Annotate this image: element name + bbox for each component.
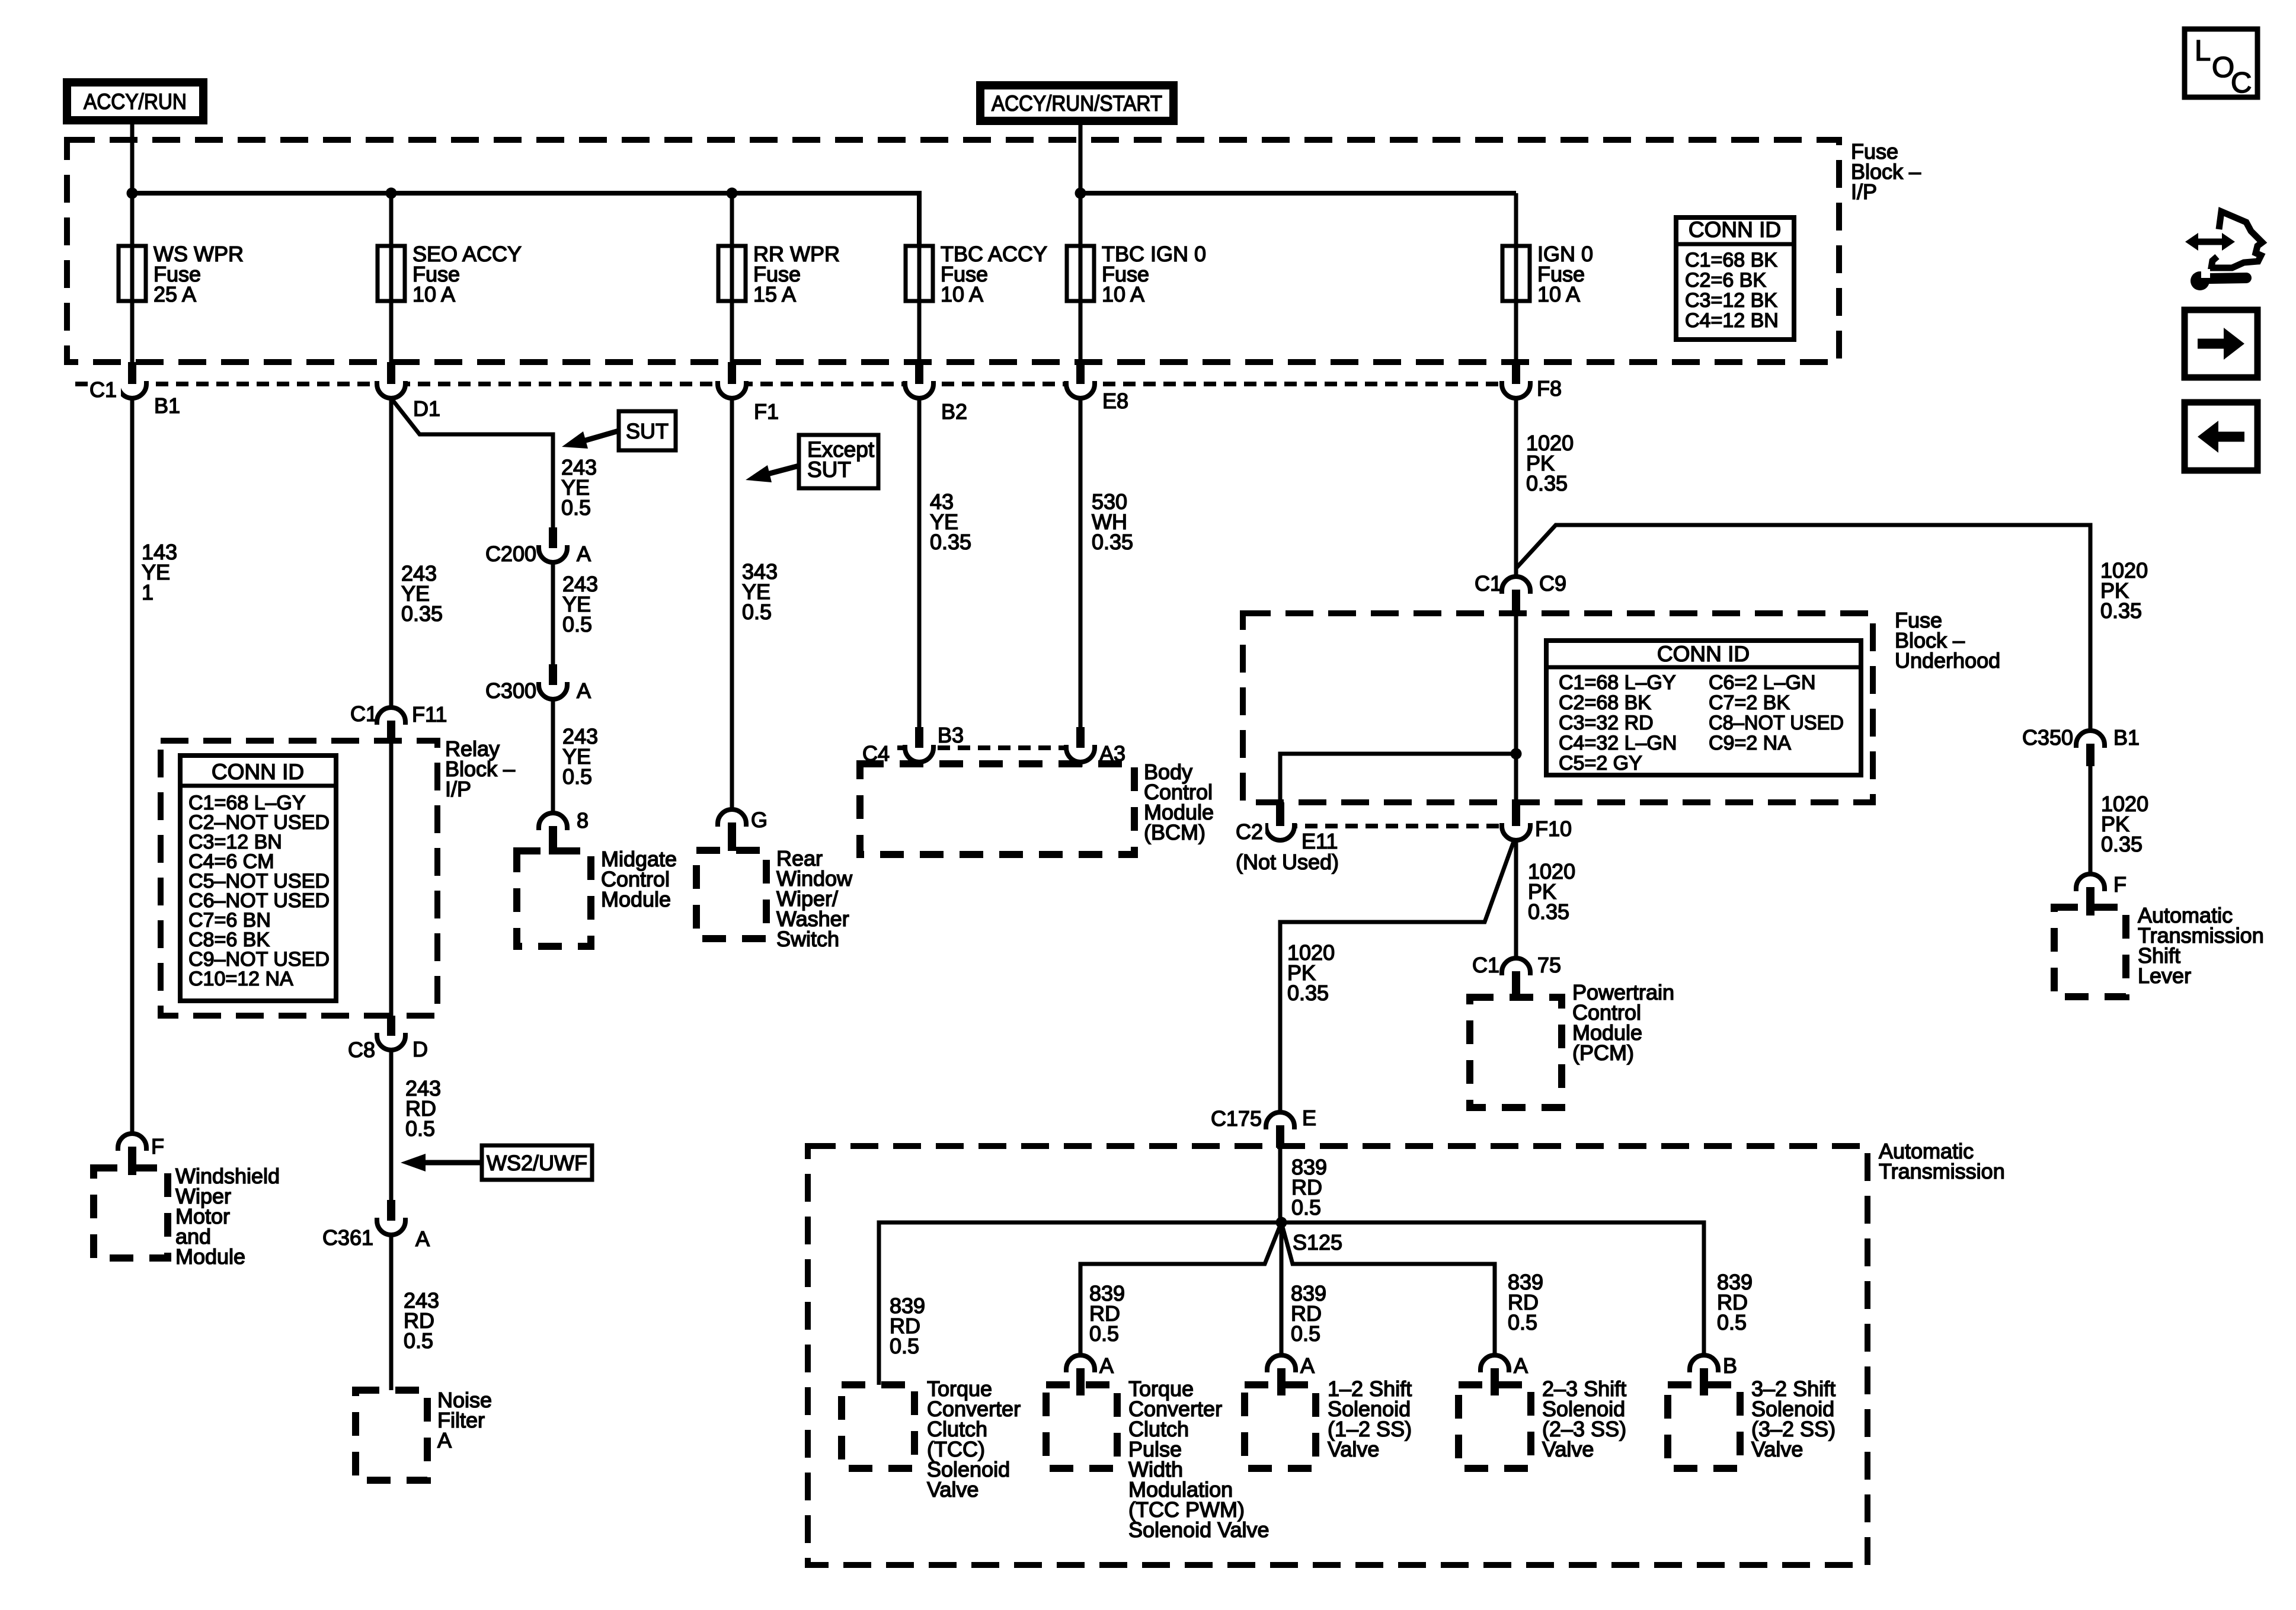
svg-text:D1: D1 — [413, 396, 440, 421]
wire label 1020 PK 0.35 — [1287, 940, 1335, 1005]
connector pin F1 — [718, 362, 746, 398]
svg-text:0.35: 0.35 — [401, 601, 443, 626]
svg-text:C2=6 BK: C2=6 BK — [1685, 269, 1766, 292]
CONN ID table Fuse Block I/P — [1676, 217, 1794, 340]
component Automatic Transmission Shift Lever — [2054, 907, 2126, 997]
connector C1 pin B1 — [118, 362, 146, 398]
svg-text:CONN ID: CONN ID — [1689, 217, 1781, 242]
wire 343 YE 0.5 from F1 — [730, 398, 734, 809]
svg-text:0.5: 0.5 — [562, 764, 592, 789]
connector pin F windshield wiper motor — [118, 1134, 146, 1175]
fuse IGN 0 10A — [1502, 246, 1530, 301]
svg-text:E: E — [1302, 1106, 1316, 1130]
connector pin F10 — [1502, 802, 1530, 840]
connector C350 pin B1 — [2076, 731, 2105, 766]
label 1-2 Shift Solenoid Valve — [1328, 1377, 1412, 1461]
automatic transmission enclosure — [808, 1146, 1868, 1565]
fuse block I/P enclosure — [67, 140, 1839, 362]
svg-text:C1=68 L–GY: C1=68 L–GY — [1559, 671, 1676, 694]
svg-text:0.5: 0.5 — [1717, 1310, 1747, 1334]
bus ACCY/RUN inside fuse block — [132, 193, 919, 246]
svg-text:CONN ID: CONN ID — [212, 760, 304, 784]
label Relay Block I/P — [445, 737, 515, 801]
component Rear Window Wiper/Washer Switch — [696, 850, 766, 939]
connector pin B 3-2 shift solenoid — [1690, 1355, 1718, 1395]
connector rail underhood (dotted) — [1245, 824, 1504, 828]
svg-text:C1: C1 — [1472, 953, 1499, 977]
svg-text:F: F — [2113, 872, 2126, 897]
arrow SUT to wire — [562, 431, 619, 449]
svg-text:Lever: Lever — [2138, 964, 2191, 988]
connector rail BCM (dotted) — [877, 745, 1096, 750]
svg-text:C9=2 NA: C9=2 NA — [1709, 732, 1791, 754]
connector pin 8 midgate control module — [539, 813, 567, 854]
wire label 1020 PK 0.35 — [2100, 558, 2148, 623]
wire label 839 RD 0.5 — [1291, 1281, 1326, 1346]
fuse TBC IGN 0 10A — [1067, 246, 1094, 301]
svg-text:SUT: SUT — [807, 457, 851, 482]
svg-text:0.5: 0.5 — [1291, 1321, 1320, 1346]
label Powertrain Control Module (PCM) — [1572, 980, 1674, 1065]
connector C2 pin E11 not used — [1266, 802, 1294, 840]
arrow WS2/UWF to wire — [401, 1154, 482, 1172]
svg-text:75: 75 — [1537, 953, 1561, 977]
svg-text:I/P: I/P — [1851, 180, 1877, 204]
bus ACCY/RUN/START inside fuse block — [1080, 191, 1516, 196]
svg-text:C: C — [2231, 67, 2252, 99]
wire 243 RD 0.5 to noise filter — [389, 1235, 394, 1390]
svg-text:Solenoid Valve: Solenoid Valve — [1128, 1518, 1269, 1542]
label Fuse Block Underhood — [1895, 608, 2000, 673]
svg-text:B: B — [1723, 1353, 1737, 1378]
connector C300 pin A — [539, 664, 567, 699]
connector pin E8 — [1066, 362, 1095, 398]
wire label 839 RD 0.5 — [1508, 1270, 1543, 1334]
connector C175 pin E automatic transmission — [1266, 1112, 1294, 1148]
svg-text:E8: E8 — [1102, 389, 1128, 413]
fuse RR WPR 15A — [718, 246, 746, 301]
svg-text:0.5: 0.5 — [1508, 1310, 1537, 1334]
svg-text:C3=32 RD: C3=32 RD — [1559, 712, 1654, 734]
svg-text:S125: S125 — [1293, 1230, 1342, 1254]
wire label 839 RD 0.5 — [890, 1294, 925, 1358]
connector pin A TCC PWM solenoid — [1066, 1355, 1095, 1395]
svg-text:25 A: 25 A — [154, 282, 196, 306]
svg-text:D: D — [412, 1037, 428, 1061]
svg-text:0.35: 0.35 — [1287, 981, 1329, 1005]
svg-text:B2: B2 — [941, 399, 967, 424]
reference tag Except SUT — [799, 435, 878, 488]
svg-text:A: A — [1514, 1353, 1528, 1378]
wire bus through fuse to connector — [1514, 193, 1518, 362]
wire label 1020 PK 0.35 — [1526, 431, 1574, 495]
wire 243 YE 0.35 from D1 — [389, 398, 394, 708]
svg-text:Valve: Valve — [1751, 1437, 1803, 1461]
label Automatic Transmission Shift Lever — [2138, 903, 2264, 988]
svg-text:C5=2 GY: C5=2 GY — [1559, 752, 1642, 774]
wire inside underhood block — [1514, 613, 1518, 802]
wire bus through fuse to connector — [917, 193, 922, 362]
svg-text:0.5: 0.5 — [562, 612, 592, 636]
svg-text:WS2/UWF: WS2/UWF — [487, 1151, 587, 1175]
svg-text:8: 8 — [577, 808, 589, 833]
component 1-2 shift solenoid valve — [1245, 1385, 1316, 1468]
wire S125 to 2-3 shift solenoid — [1281, 1222, 1495, 1355]
svg-text:G: G — [751, 808, 768, 832]
connector C361 pin A — [377, 1200, 405, 1235]
svg-text:C10=12 NA: C10=12 NA — [188, 968, 293, 990]
svg-text:B1: B1 — [154, 393, 180, 418]
connector C1 pin D1 — [377, 362, 405, 398]
wire 243 YE 0.5 — [551, 699, 555, 813]
svg-text:0.35: 0.35 — [1526, 471, 1568, 495]
wire label 143 YE 1 — [142, 540, 177, 604]
wire ACCY/RUN/START feed down — [1079, 125, 1083, 193]
wire splice bus S125 to TCC and 3-2 solenoids — [879, 1222, 1704, 1385]
svg-text:C8: C8 — [348, 1038, 375, 1062]
svg-text:C6=2 L–GN: C6=2 L–GN — [1709, 671, 1816, 694]
svg-text:Valve: Valve — [1328, 1437, 1379, 1461]
svg-text:Module: Module — [175, 1244, 245, 1269]
wire 143 YE from B1 — [130, 398, 135, 1134]
svg-text:Transmission: Transmission — [1879, 1159, 2005, 1183]
node ACCY/RUN/START feed — [976, 81, 1178, 125]
svg-text:C350: C350 — [2022, 725, 2073, 750]
svg-text:CONN ID: CONN ID — [1657, 642, 1750, 666]
svg-text:C3=12 BK: C3=12 BK — [1685, 289, 1777, 312]
svg-text:0.5: 0.5 — [1291, 1195, 1321, 1219]
junction at RR WPR fuse — [727, 188, 738, 199]
label 3-2 Shift Solenoid Valve — [1751, 1377, 1835, 1461]
connector pin F shift lever — [2076, 874, 2105, 916]
svg-text:C1=68 BK: C1=68 BK — [1685, 249, 1777, 271]
wire label 243 YE 0.5 — [562, 572, 598, 636]
wire label 243 YE 0.35 — [401, 561, 443, 626]
arrow Except SUT to wire — [746, 465, 799, 482]
CONN ID table Fuse Block Underhood — [1546, 641, 1861, 775]
svg-text:C200: C200 — [485, 542, 536, 566]
component Noise Filter A — [356, 1390, 427, 1480]
svg-text:F11: F11 — [412, 702, 447, 726]
wire 43 YE 0.35 from B2 — [917, 398, 922, 727]
wire label 1020 PK 0.35 — [2101, 792, 2148, 856]
wire B3 into BCM — [917, 761, 922, 767]
reference tag SUT — [619, 411, 676, 450]
label Automatic Transmission — [1879, 1139, 2005, 1183]
wire label 43 YE 0.35 — [930, 489, 971, 554]
label Fuse Block I/P — [1851, 139, 1921, 204]
svg-text:1: 1 — [142, 580, 154, 604]
svg-text:A: A — [577, 542, 591, 566]
component TCC solenoid valve — [842, 1385, 914, 1468]
wire label 243 YE 0.5 — [562, 724, 598, 789]
svg-text:Underhood: Underhood — [1895, 648, 2000, 673]
connector pin B2 — [905, 362, 933, 398]
connector C1 pin F11 relay block — [377, 708, 405, 743]
wire label 243 YE 0.5 — [561, 455, 597, 520]
svg-text:0.5: 0.5 — [1089, 1321, 1119, 1346]
wire bus through fuse to connector — [1079, 193, 1083, 362]
svg-text:0.5: 0.5 — [561, 495, 591, 520]
label Midgate Control Module — [601, 847, 677, 911]
wire through relay block — [389, 743, 394, 1016]
label Windshield Wiper Motor and Module — [175, 1164, 280, 1269]
connector pin A3 BCM — [1066, 727, 1095, 762]
junction at TBC IGN 0 fuse — [1075, 188, 1086, 199]
connector C200 pin A — [539, 527, 567, 562]
svg-text:A: A — [1099, 1353, 1114, 1378]
connector pin G rear wiper switch — [718, 809, 746, 851]
component TCC PWM solenoid valve — [1046, 1385, 1117, 1468]
node ACCY/RUN feed — [63, 78, 207, 124]
wire 1020 PK 0.35 to shift lever — [2089, 766, 2093, 874]
svg-text:10 A: 10 A — [941, 282, 983, 306]
svg-text:10 A: 10 A — [1537, 282, 1580, 306]
svg-text:C361: C361 — [322, 1225, 373, 1250]
connector C8 pin D relay block — [377, 1016, 405, 1050]
svg-text:(BCM): (BCM) — [1144, 820, 1205, 844]
svg-text:A: A — [1300, 1353, 1315, 1378]
label Rear Window Wiper/Washer Switch — [776, 846, 853, 951]
wire 1020 PK 0.35 branch to C175 — [1280, 841, 1514, 1112]
wire 1020 PK 0.35 to PCM — [1514, 840, 1518, 958]
wire label 243 RD 0.5 — [404, 1288, 439, 1353]
fuse TBC ACCY 10A — [906, 246, 933, 301]
wire 243 YE 0.5 — [551, 562, 555, 664]
svg-text:C2: C2 — [1236, 820, 1263, 844]
wire to 1-2 shift solenoid — [1280, 1222, 1284, 1355]
svg-text:F1: F1 — [754, 399, 779, 424]
svg-text:C9: C9 — [1539, 571, 1566, 596]
wire label 343 YE 0.5 — [742, 559, 778, 624]
relay block I/P enclosure — [161, 741, 437, 1016]
svg-text:C1: C1 — [350, 702, 378, 726]
reference tag WS2/UWF — [482, 1145, 592, 1180]
connector rail C1 (dotted) — [75, 382, 1504, 386]
component Powertrain Control Module PCM — [1470, 997, 1562, 1108]
svg-text:C175: C175 — [1211, 1106, 1262, 1131]
wire label 243 RD 0.5 — [405, 1076, 441, 1141]
wire 1020 PK 0.35 from F8 — [1514, 398, 1518, 578]
connector C4 pin B3 BCM — [905, 727, 933, 762]
svg-text:0.35: 0.35 — [1528, 900, 1569, 924]
svg-text:0.35: 0.35 — [2100, 598, 2142, 623]
svg-text:F8: F8 — [1537, 376, 1562, 401]
icon vehicle with double arrow and wrench — [2185, 212, 2262, 290]
connector C1 pin C9 fuse block underhood — [1502, 577, 1530, 613]
svg-text:ACCY/RUN: ACCY/RUN — [84, 89, 187, 114]
wire bus through fuse to connector — [389, 193, 394, 362]
wire 839 RD 0.5 from C175 E — [1278, 1148, 1283, 1222]
wire S125 to TCC PWM solenoid — [1080, 1222, 1281, 1355]
component 3-2 shift solenoid valve — [1668, 1385, 1740, 1468]
wire label 530 WH 0.35 — [1092, 489, 1133, 554]
svg-text:10 A: 10 A — [1102, 282, 1144, 306]
component Windshield Wiper Motor and Module — [94, 1168, 168, 1258]
svg-text:A: A — [415, 1227, 430, 1251]
label Noise Filter A — [437, 1388, 492, 1452]
wire ACCY/RUN feed down — [130, 124, 135, 193]
label TCC Solenoid Valve — [927, 1377, 1021, 1502]
svg-text:F: F — [151, 1134, 164, 1158]
svg-text:A: A — [577, 678, 591, 703]
label 2-3 Shift Solenoid Valve — [1542, 1377, 1626, 1461]
svg-text:C2=68 BK: C2=68 BK — [1559, 692, 1651, 714]
svg-text:F10: F10 — [1535, 817, 1572, 841]
wire 530 WH 0.35 from E8 — [1079, 398, 1083, 727]
connector pin A 2-3 shift solenoid — [1480, 1355, 1509, 1395]
svg-text:C300: C300 — [485, 678, 536, 703]
svg-text:(Not Used): (Not Used) — [1236, 850, 1339, 874]
svg-text:10 A: 10 A — [412, 282, 455, 306]
connector pin F8 — [1502, 362, 1530, 398]
svg-text:C7=2 BK: C7=2 BK — [1709, 692, 1790, 714]
junction at SEO ACCY fuse — [386, 188, 397, 199]
svg-text:C1: C1 — [1475, 571, 1502, 596]
svg-text:0.5: 0.5 — [742, 600, 772, 624]
component Body Control Module BCM — [860, 764, 1134, 854]
svg-text:B3: B3 — [938, 723, 964, 747]
wire 1020 PK 0.35 branch to C350 — [1516, 525, 2090, 731]
connector C1 pin 75 PCM — [1502, 958, 1530, 997]
CONN ID table Relay Block I/P — [180, 756, 336, 1001]
fuse WS WPR 25A — [119, 246, 146, 301]
svg-text:Switch: Switch — [776, 927, 839, 951]
splice S125 — [1276, 1217, 1287, 1228]
svg-text:C1: C1 — [89, 377, 117, 402]
icon LOC page locator — [2185, 29, 2257, 99]
wire label 839 RD 0.5 — [1089, 1281, 1125, 1346]
svg-text:0.35: 0.35 — [2101, 832, 2142, 856]
label TCC PWM Solenoid Valve — [1128, 1377, 1269, 1542]
wire branch to C2 E11 not used — [1280, 754, 1516, 802]
svg-text:A: A — [437, 1428, 452, 1452]
svg-text:Valve: Valve — [1542, 1437, 1594, 1461]
svg-text:0.35: 0.35 — [930, 530, 971, 554]
svg-text:15 A: 15 A — [753, 282, 796, 306]
svg-text:C8–NOT USED: C8–NOT USED — [1709, 712, 1844, 734]
wire D1 SUT branch 243 YE 0.5 — [391, 398, 553, 529]
svg-text:0.5: 0.5 — [890, 1334, 919, 1358]
component 2-3 shift solenoid valve — [1459, 1385, 1531, 1468]
svg-text:L: L — [2195, 35, 2211, 67]
junction S underhood — [1511, 748, 1522, 760]
icon next arrow — [2185, 310, 2257, 377]
wire bus through fuse to connector — [730, 193, 734, 362]
wire label 839 RD 0.5 — [1291, 1155, 1327, 1219]
wire bus through fuse to connector — [130, 193, 135, 362]
svg-text:0.5: 0.5 — [404, 1329, 433, 1353]
svg-text:0.5: 0.5 — [405, 1116, 435, 1141]
svg-text:Module: Module — [601, 887, 671, 911]
junction at WS WPR fuse — [127, 188, 138, 199]
wire label 1020 PK 0.35 — [1528, 859, 1575, 924]
svg-text:I/P: I/P — [445, 777, 471, 801]
label Body Control Module (BCM) — [1144, 760, 1214, 844]
svg-text:ACCY/RUN/START: ACCY/RUN/START — [992, 91, 1162, 116]
svg-text:C4=12 BN: C4=12 BN — [1685, 309, 1779, 332]
connector pin A 1-2 shift solenoid — [1267, 1355, 1296, 1395]
svg-text:0.35: 0.35 — [1092, 530, 1133, 554]
wire A3 into BCM — [1079, 761, 1083, 767]
svg-text:B1: B1 — [2113, 725, 2140, 750]
wire label 839 RD 0.5 — [1717, 1270, 1753, 1334]
component Midgate Control Module — [517, 851, 591, 946]
fuse block underhood enclosure — [1243, 613, 1873, 802]
fuse SEO ACCY 10A — [378, 246, 405, 301]
svg-text:Valve: Valve — [927, 1477, 978, 1502]
svg-text:C4=32 L–GN: C4=32 L–GN — [1559, 732, 1677, 754]
svg-text:(PCM): (PCM) — [1572, 1041, 1634, 1065]
wire 243 RD 0.5 from D — [389, 1050, 394, 1200]
svg-text:SUT: SUT — [626, 419, 669, 443]
icon previous arrow — [2185, 402, 2257, 470]
